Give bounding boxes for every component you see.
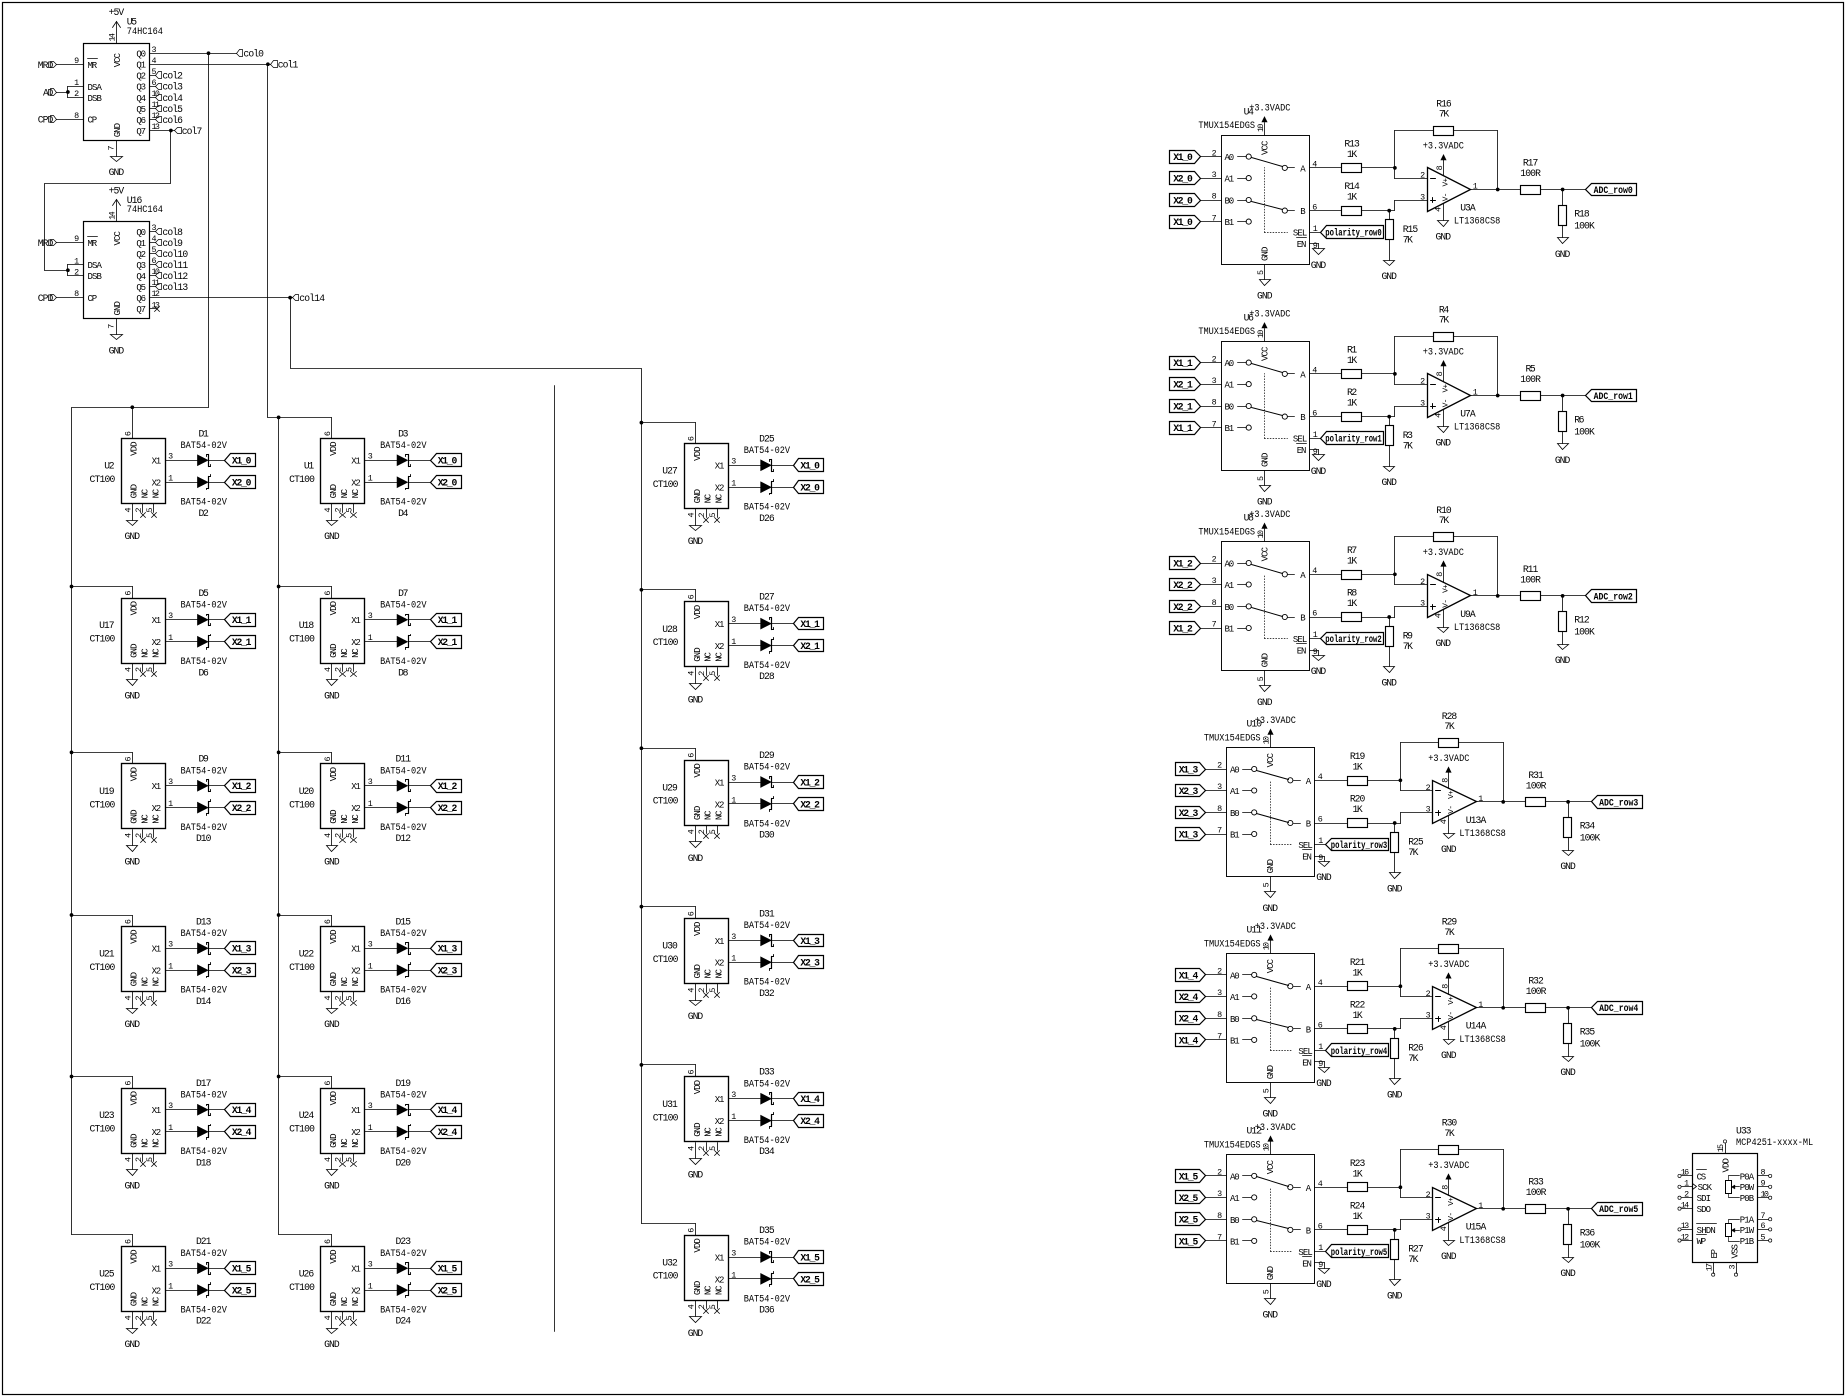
resistor R14 1K <box>1342 181 1362 216</box>
svg-text:8: 8 <box>1761 1168 1766 1178</box>
svg-text:Q2: Q2 <box>136 72 146 82</box>
svg-text:GND: GND <box>329 1134 339 1148</box>
svg-text:CT100: CT100 <box>90 633 116 644</box>
wire R21 to U14A inverting input <box>1368 984 1433 996</box>
op-amp U3A LT1368CS8 <box>1420 165 1500 226</box>
svg-text:X2: X2 <box>152 638 162 648</box>
wire U17 to diode D6 <box>166 641 198 643</box>
resistor R6 100K (load) <box>1559 396 1595 444</box>
global label X1_5 <box>225 1262 256 1275</box>
hierarchical label col14 <box>293 293 326 304</box>
ground at U31 pin 4 <box>688 1159 704 1181</box>
wire diode D23 to label X1_5 <box>409 1268 431 1270</box>
svg-text:X1: X1 <box>715 620 725 630</box>
svg-text:2: 2 <box>134 507 144 512</box>
svg-text:X1_2: X1_2 <box>232 781 252 792</box>
svg-text:NC: NC <box>715 1127 725 1137</box>
op-amp U13A LT1368CS8 <box>1426 778 1506 839</box>
+3.3VADC power at U10 VCC <box>1255 715 1296 748</box>
svg-text:BAT54-02V: BAT54-02V <box>181 765 228 776</box>
diode D16 BAT54-02V <box>380 963 427 1007</box>
wire U5 Q6 to col6 <box>150 119 156 121</box>
svg-text:2: 2 <box>334 667 344 672</box>
svg-text:col11: col11 <box>162 260 188 271</box>
svg-text:6: 6 <box>687 436 697 441</box>
svg-text:R35: R35 <box>1580 1027 1596 1038</box>
svg-text:EN: EN <box>1302 1058 1312 1068</box>
svg-text:Q0: Q0 <box>136 50 146 60</box>
svg-text:BAT54-02V: BAT54-02V <box>181 656 228 667</box>
wire U5 Q2 to col2 <box>150 75 156 77</box>
svg-text:CT100: CT100 <box>653 796 679 807</box>
diode D27 BAT54-02V <box>744 592 791 630</box>
svg-text:5: 5 <box>708 671 718 676</box>
wire feedback node to R16 <box>1395 131 1434 168</box>
svg-text:X1_4: X1_4 <box>232 1105 252 1116</box>
svg-text:3: 3 <box>731 1248 736 1258</box>
svg-text:BAT54-02V: BAT54-02V <box>744 1078 791 1089</box>
svg-text:1: 1 <box>1478 1201 1483 1211</box>
ground at U22 pin 4 <box>324 1009 340 1031</box>
global label X1_1 <box>1170 357 1222 370</box>
hierarchical label col3 <box>156 82 184 93</box>
svg-text:R14: R14 <box>1344 181 1360 192</box>
diode D4 BAT54-02V <box>380 475 427 519</box>
svg-text:V-: V- <box>1448 1011 1456 1020</box>
wire U5 Q7 to col7 <box>150 129 175 133</box>
svg-text:GND: GND <box>688 853 704 864</box>
svg-text:X1: X1 <box>715 778 725 788</box>
ground at U14A V- <box>1441 1022 1457 1062</box>
svg-text:CT100: CT100 <box>90 962 116 973</box>
svg-text:BAT54-02V: BAT54-02V <box>744 1293 791 1304</box>
svg-text:GND: GND <box>125 691 141 702</box>
svg-text:X1: X1 <box>351 1106 361 1116</box>
ground at U26 pin 4 <box>324 1329 340 1351</box>
svg-text:X2_3: X2_3 <box>1179 786 1199 797</box>
wire diode D19 to label X1_4 <box>409 1109 431 1111</box>
wire U3A output to R17 <box>1471 188 1521 192</box>
svg-text:A1: A1 <box>1230 787 1240 797</box>
svg-text:NC: NC <box>715 1285 725 1295</box>
svg-text:100R: 100R <box>1526 780 1547 791</box>
svg-text:X1: X1 <box>715 1095 725 1105</box>
svg-text:V-: V- <box>1448 1212 1456 1221</box>
svg-text:2: 2 <box>697 988 707 993</box>
svg-text:VCC: VCC <box>1266 752 1276 767</box>
svg-text:X1_5: X1_5 <box>1179 1236 1199 1247</box>
wire diode D34 to label X2_4 <box>772 1120 794 1122</box>
svg-text:NC: NC <box>140 1296 150 1306</box>
svg-text:GND: GND <box>1436 232 1452 243</box>
svg-text:BAT54-02V: BAT54-02V <box>181 497 228 508</box>
ground at U2 pin 4 <box>125 521 141 543</box>
svg-text:GND: GND <box>125 1019 141 1030</box>
wire U27 to diode D25 <box>729 465 761 467</box>
svg-text:2: 2 <box>134 667 144 672</box>
global label X1_0 <box>1170 151 1222 164</box>
svg-text:D19: D19 <box>396 1078 412 1089</box>
wire R2 to U7A non-inverting input <box>1362 407 1428 419</box>
wire U5 Q3 to col3 <box>150 86 156 88</box>
global label X2_0 <box>794 481 824 494</box>
svg-text:X2: X2 <box>715 484 725 494</box>
svg-text:X1_0: X1_0 <box>800 461 820 472</box>
svg-text:U2: U2 <box>104 461 114 472</box>
global label X2_2 <box>1170 601 1222 613</box>
svg-text:D16: D16 <box>396 996 412 1007</box>
IC U28 CT100 <box>653 594 737 683</box>
svg-text:GND: GND <box>329 1292 339 1306</box>
svg-text:GND: GND <box>1436 438 1452 449</box>
ground at U3A V- <box>1436 204 1452 243</box>
svg-text:NC: NC <box>151 1138 161 1148</box>
resistor R18 100K (load) <box>1559 190 1595 238</box>
svg-text:V+: V+ <box>1443 383 1451 392</box>
svg-text:U14A: U14A <box>1466 1021 1487 1032</box>
wire U28 to diode D28 <box>729 645 761 647</box>
diode D14 BAT54-02V <box>181 963 228 1007</box>
svg-text:B0: B0 <box>1230 1015 1240 1025</box>
global label ADC_row0 <box>1586 184 1637 196</box>
svg-text:B: B <box>1306 1227 1312 1237</box>
svg-text:X2: X2 <box>152 804 162 814</box>
svg-text:A0: A0 <box>1225 560 1235 570</box>
svg-text:X1: X1 <box>351 1265 361 1275</box>
IC U2 CT100 <box>90 431 174 520</box>
wire R24 to U15A non-inverting input <box>1368 1220 1433 1232</box>
resistor R31 100R <box>1526 770 1547 807</box>
svg-text:7: 7 <box>1217 1032 1222 1042</box>
svg-text:CT100: CT100 <box>90 799 116 810</box>
svg-text:BAT54-02V: BAT54-02V <box>380 1305 427 1316</box>
svg-text:R2: R2 <box>1347 387 1357 398</box>
IC U17 CT100 <box>90 591 174 680</box>
svg-text:Q3: Q3 <box>136 83 146 93</box>
svg-text:GND: GND <box>109 345 125 356</box>
svg-text:B: B <box>1300 614 1306 624</box>
svg-text:VDD: VDD <box>130 1249 140 1263</box>
wire diode D11 to label X1_2 <box>409 785 431 787</box>
ground at U8 EN pin 9 <box>1311 656 1327 678</box>
svg-text:X1_2: X1_2 <box>1173 558 1193 569</box>
wire R23 to U15A inverting input <box>1368 1185 1433 1197</box>
svg-text:4: 4 <box>1434 413 1444 418</box>
svg-text:6: 6 <box>123 919 133 924</box>
IC U19 CT100 <box>90 756 174 845</box>
wire col7 chain from U5 Q7 to U16 DSA/DSB <box>45 131 171 276</box>
svg-text:GND: GND <box>125 1181 141 1192</box>
svg-text:2: 2 <box>1217 1168 1222 1178</box>
svg-text:X2: X2 <box>152 967 162 977</box>
ground at U17 pin 4 <box>125 680 141 702</box>
svg-text:5: 5 <box>145 833 155 838</box>
svg-text:X1: X1 <box>715 462 725 472</box>
svg-text:D22: D22 <box>196 1316 212 1327</box>
wire column C bus feed row 5 <box>642 1224 696 1236</box>
global label X1_0 <box>794 459 824 472</box>
global label X1_5 <box>1176 1235 1227 1248</box>
svg-text:GND: GND <box>130 1292 140 1306</box>
svg-text:CT100: CT100 <box>90 474 116 485</box>
svg-text:CP: CP <box>88 116 98 126</box>
resistor R33 100R <box>1526 1177 1547 1214</box>
svg-text:2: 2 <box>1420 171 1425 181</box>
svg-text:NC: NC <box>140 488 150 498</box>
svg-text:6: 6 <box>687 911 697 916</box>
svg-text:ADC_row5: ADC_row5 <box>1599 1204 1638 1215</box>
hierarchical label CPD (U16) <box>38 293 57 304</box>
svg-text:7K: 7K <box>1439 515 1449 526</box>
svg-text:X1_3: X1_3 <box>1179 829 1199 840</box>
wire U16 Q3 to col11 <box>150 264 156 266</box>
svg-text:7K: 7K <box>1444 1128 1454 1139</box>
wire U31 to diode D33 <box>729 1098 761 1100</box>
IC U26 CT100 <box>289 1239 373 1329</box>
wire U23 to diode D18 <box>166 1131 198 1133</box>
svg-text:6: 6 <box>1761 1221 1766 1231</box>
resistor R28 7K (feedback) <box>1439 711 1459 748</box>
hierarchical label col5 <box>156 104 184 115</box>
svg-text:P1A: P1A <box>1740 1216 1755 1226</box>
svg-text:1K: 1K <box>1352 804 1362 815</box>
svg-text:1K: 1K <box>1352 1168 1362 1179</box>
wire diode D18 to label X2_4 <box>209 1131 225 1133</box>
svg-text:GND: GND <box>1441 844 1457 855</box>
svg-text:VDD: VDD <box>130 930 140 944</box>
svg-text:BAT54-02V: BAT54-02V <box>181 599 228 610</box>
ground at U23 pin 4 <box>125 1170 141 1192</box>
global label X2_3 <box>431 964 462 977</box>
global label X2_3 <box>794 956 824 969</box>
svg-text:100K: 100K <box>1574 220 1595 231</box>
resistor R9 7K (divider) <box>1386 618 1414 667</box>
svg-text:5: 5 <box>345 1157 355 1162</box>
svg-text:CT100: CT100 <box>653 1112 679 1123</box>
ground at R9 <box>1381 667 1397 689</box>
svg-text:2: 2 <box>334 1315 344 1320</box>
svg-text:Q2: Q2 <box>136 250 146 260</box>
svg-text:U28: U28 <box>662 624 678 635</box>
ground at U1 pin 4 <box>324 521 340 543</box>
svg-text:GND: GND <box>1555 249 1571 260</box>
wire U14A output to R32 <box>1477 1006 1526 1010</box>
svg-text:X1_2: X1_2 <box>800 777 820 788</box>
diode D5 BAT54-02V <box>181 588 228 626</box>
svg-text:VSS: VSS <box>1730 1244 1740 1258</box>
wire U22 to diode D15 <box>365 948 398 950</box>
wire column C bus feed row 2 <box>640 746 696 760</box>
svg-text:D17: D17 <box>196 1078 212 1089</box>
svg-text:MRD: MRD <box>38 238 54 249</box>
wire diode D15 to label X1_3 <box>409 948 431 950</box>
wire MRD to U5 MR <box>57 64 84 66</box>
svg-text:1K: 1K <box>1352 1211 1362 1222</box>
svg-text:P1W: P1W <box>1740 1226 1755 1236</box>
svg-text:A0: A0 <box>1230 766 1240 776</box>
svg-text:4: 4 <box>1439 1025 1449 1030</box>
svg-text:X2: X2 <box>351 638 361 648</box>
wire diode D17 to label X1_4 <box>209 1109 225 1111</box>
svg-text:Q6: Q6 <box>136 116 146 126</box>
wire column A bus feed row 2 <box>70 751 133 764</box>
svg-text:NC: NC <box>704 652 714 662</box>
svg-text:NC: NC <box>151 814 161 824</box>
wire U5 Q4 to col4 <box>150 97 156 99</box>
svg-text:CT100: CT100 <box>289 633 315 644</box>
svg-text:D24: D24 <box>396 1316 412 1327</box>
ground at U12 pin 5 <box>1263 1284 1279 1321</box>
svg-text:100R: 100R <box>1520 168 1541 179</box>
svg-text:A: A <box>1300 165 1306 175</box>
global label X1_4 <box>225 1104 256 1117</box>
svg-text:NC: NC <box>351 1138 361 1148</box>
svg-text:NC: NC <box>704 968 714 978</box>
wire diode D8 to label X2_1 <box>409 641 431 643</box>
svg-text:3: 3 <box>1420 192 1425 202</box>
svg-text:+3.3VADC: +3.3VADC <box>1249 103 1290 114</box>
svg-text:74HC164: 74HC164 <box>127 26 163 37</box>
svg-text:col13: col13 <box>162 282 188 293</box>
svg-text:D8: D8 <box>398 667 408 678</box>
svg-text:Q4: Q4 <box>136 94 146 104</box>
svg-text:5: 5 <box>708 829 718 834</box>
wire feedback node to R4 <box>1395 337 1434 374</box>
wire diode D30 to label X2_2 <box>772 803 794 805</box>
svg-text:BAT54-02V: BAT54-02V <box>380 765 427 776</box>
svg-text:NC: NC <box>351 1296 361 1306</box>
svg-text:14: 14 <box>107 33 117 41</box>
svg-text:A1: A1 <box>1225 175 1235 185</box>
svg-text:U22: U22 <box>299 949 315 960</box>
svg-text:U13A: U13A <box>1466 815 1487 826</box>
svg-text:10: 10 <box>1261 942 1271 950</box>
wire diode D31 to label X1_3 <box>772 940 794 942</box>
svg-text:13: 13 <box>1681 1221 1689 1231</box>
global label ADC_row1 <box>1586 390 1637 402</box>
wire diode D9 to label X1_2 <box>209 785 225 787</box>
svg-text:X1: X1 <box>152 1265 162 1275</box>
ground at U30 pin 4 <box>688 1001 704 1023</box>
svg-text:VCC: VCC <box>113 231 123 246</box>
svg-text:2: 2 <box>1420 377 1425 387</box>
ground at R6 <box>1555 444 1571 466</box>
svg-text:VCC: VCC <box>1261 140 1271 155</box>
svg-text:V+: V+ <box>1448 790 1456 799</box>
svg-text:LT1368CS8: LT1368CS8 <box>1459 1034 1506 1045</box>
svg-text:V-: V- <box>1443 193 1451 202</box>
svg-text:BAT54-02V: BAT54-02V <box>380 1248 427 1259</box>
hierarchical label col9 <box>156 238 184 249</box>
svg-text:6: 6 <box>323 431 333 436</box>
svg-text:GND: GND <box>324 1181 340 1192</box>
svg-text:GND: GND <box>688 1011 704 1022</box>
svg-text:CT100: CT100 <box>289 1282 315 1293</box>
svg-text:CT100: CT100 <box>289 1123 315 1134</box>
svg-text:X2_3: X2_3 <box>438 966 458 977</box>
svg-text:10: 10 <box>1261 1143 1271 1151</box>
svg-text:X1_1: X1_1 <box>232 615 252 626</box>
svg-text:5: 5 <box>708 1146 718 1151</box>
svg-text:P1B: P1B <box>1740 1237 1755 1247</box>
wire R10 to U9A output <box>1454 537 1498 596</box>
svg-text:BAT54-02V: BAT54-02V <box>744 502 791 513</box>
IC U30 CT100 <box>653 911 737 1000</box>
svg-text:D31: D31 <box>759 908 775 919</box>
svg-text:A: A <box>1300 571 1306 581</box>
resistor R1 1K <box>1342 345 1362 379</box>
svg-text:P0W: P0W <box>1740 1183 1755 1193</box>
svg-text:+3.3VADC: +3.3VADC <box>1428 753 1469 764</box>
wire U12 B to R24 <box>1315 1229 1348 1231</box>
svg-text:10: 10 <box>1261 736 1271 744</box>
svg-text:X2_5: X2_5 <box>232 1286 252 1297</box>
svg-text:D5: D5 <box>199 588 209 599</box>
ground at U10 pin 5 <box>1263 877 1279 914</box>
svg-text:D11: D11 <box>396 754 412 765</box>
svg-text:5: 5 <box>345 1315 355 1320</box>
global label X1_0 <box>431 454 462 467</box>
global label X1_1 <box>431 614 462 627</box>
svg-text:NC: NC <box>704 493 714 503</box>
+3.3VADC power at U9A V+ <box>1423 547 1464 583</box>
svg-text:BAT54-02V: BAT54-02V <box>181 440 228 451</box>
svg-text:X2_1: X2_1 <box>1173 380 1193 391</box>
wire U30 to diode D31 <box>729 940 761 942</box>
svg-text:6: 6 <box>687 1228 697 1233</box>
global label X1_3 <box>431 942 462 955</box>
svg-text:7: 7 <box>107 145 117 150</box>
svg-text:EN: EN <box>1302 852 1312 862</box>
resistor R29 7K (feedback) <box>1439 917 1459 954</box>
svg-text:1K: 1K <box>1347 598 1357 609</box>
diode D13 BAT54-02V <box>181 916 228 954</box>
svg-text:X2: X2 <box>152 479 162 489</box>
svg-text:BAT54-02V: BAT54-02V <box>380 985 427 996</box>
svg-text:1: 1 <box>1478 794 1483 804</box>
svg-text:X2: X2 <box>351 479 361 489</box>
svg-text:GND: GND <box>1441 1251 1457 1262</box>
wire R19 to U13A inverting input <box>1368 778 1433 790</box>
svg-text:polarity_row3: polarity_row3 <box>1331 840 1388 851</box>
svg-text:100R: 100R <box>1520 374 1541 385</box>
diode D7 BAT54-02V <box>380 588 427 626</box>
svg-text:X2_4: X2_4 <box>232 1127 252 1138</box>
diode D36 BAT54-02V <box>744 1272 791 1316</box>
hierarchical label MRD <box>38 60 57 71</box>
svg-text:+3.3VADC: +3.3VADC <box>1428 959 1469 970</box>
svg-text:MRD: MRD <box>38 60 54 71</box>
svg-text:5: 5 <box>1761 1232 1766 1242</box>
wire diode D32 to label X2_3 <box>772 962 794 964</box>
svg-text:A1: A1 <box>1225 381 1235 391</box>
svg-text:5: 5 <box>345 507 355 512</box>
svg-text:X2: X2 <box>715 642 725 652</box>
svg-text:GND: GND <box>1263 1310 1279 1321</box>
svg-text:R22: R22 <box>1350 999 1366 1010</box>
op-amp U15A LT1368CS8 <box>1426 1185 1506 1246</box>
svg-text:D14: D14 <box>196 996 212 1007</box>
wire column A bus feed row 3 <box>70 913 133 926</box>
wire R29 to U14A output <box>1459 949 1504 1008</box>
svg-text:7K: 7K <box>1444 927 1454 938</box>
svg-text:GND: GND <box>125 1339 141 1350</box>
svg-text:X2: X2 <box>715 959 725 969</box>
svg-text:VDD: VDD <box>693 1238 703 1252</box>
svg-text:GND: GND <box>1257 496 1273 507</box>
svg-text:D33: D33 <box>759 1067 775 1078</box>
svg-text:16: 16 <box>1681 1168 1689 1178</box>
